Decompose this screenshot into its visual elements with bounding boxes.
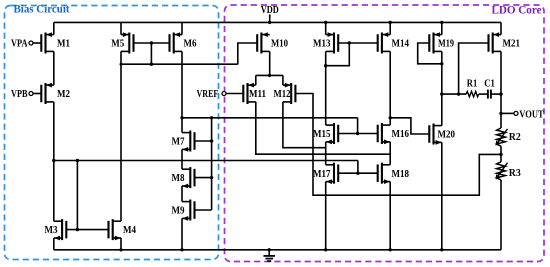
svg-text:VPB: VPB	[11, 89, 28, 100]
svg-text:M14: M14	[392, 38, 410, 50]
svg-text:M20: M20	[438, 129, 456, 141]
svg-text:M21: M21	[503, 38, 521, 50]
svg-text:R1: R1	[467, 79, 478, 90]
svg-text:M13: M13	[313, 38, 331, 50]
svg-text:M7: M7	[172, 136, 185, 148]
svg-text:M1: M1	[57, 38, 70, 50]
svg-text:Bias Circuit: Bias Circuit	[14, 2, 70, 16]
svg-text:R2: R2	[509, 132, 521, 143]
svg-text:M10: M10	[271, 38, 288, 50]
svg-text:M19: M19	[438, 38, 454, 50]
svg-text:M9: M9	[172, 205, 185, 217]
svg-text:M18: M18	[392, 168, 410, 180]
svg-text:M16: M16	[392, 128, 410, 140]
svg-text:VOUT: VOUT	[519, 109, 543, 120]
svg-text:M17: M17	[313, 168, 331, 180]
svg-text:M11: M11	[249, 88, 266, 100]
svg-text:R3: R3	[509, 168, 521, 179]
svg-text:LDO Core: LDO Core	[492, 3, 543, 17]
svg-text:VREF: VREF	[197, 88, 219, 100]
svg-text:M15: M15	[313, 128, 331, 140]
svg-text:M5: M5	[111, 38, 124, 50]
svg-text:VPA: VPA	[11, 39, 28, 50]
svg-text:M12: M12	[274, 88, 291, 100]
svg-text:M4: M4	[123, 224, 136, 236]
svg-text:M8: M8	[172, 172, 185, 184]
svg-text:M2: M2	[57, 88, 70, 100]
svg-text:M6: M6	[184, 38, 197, 50]
svg-text:C1: C1	[484, 79, 495, 90]
svg-text:M3: M3	[45, 224, 58, 236]
